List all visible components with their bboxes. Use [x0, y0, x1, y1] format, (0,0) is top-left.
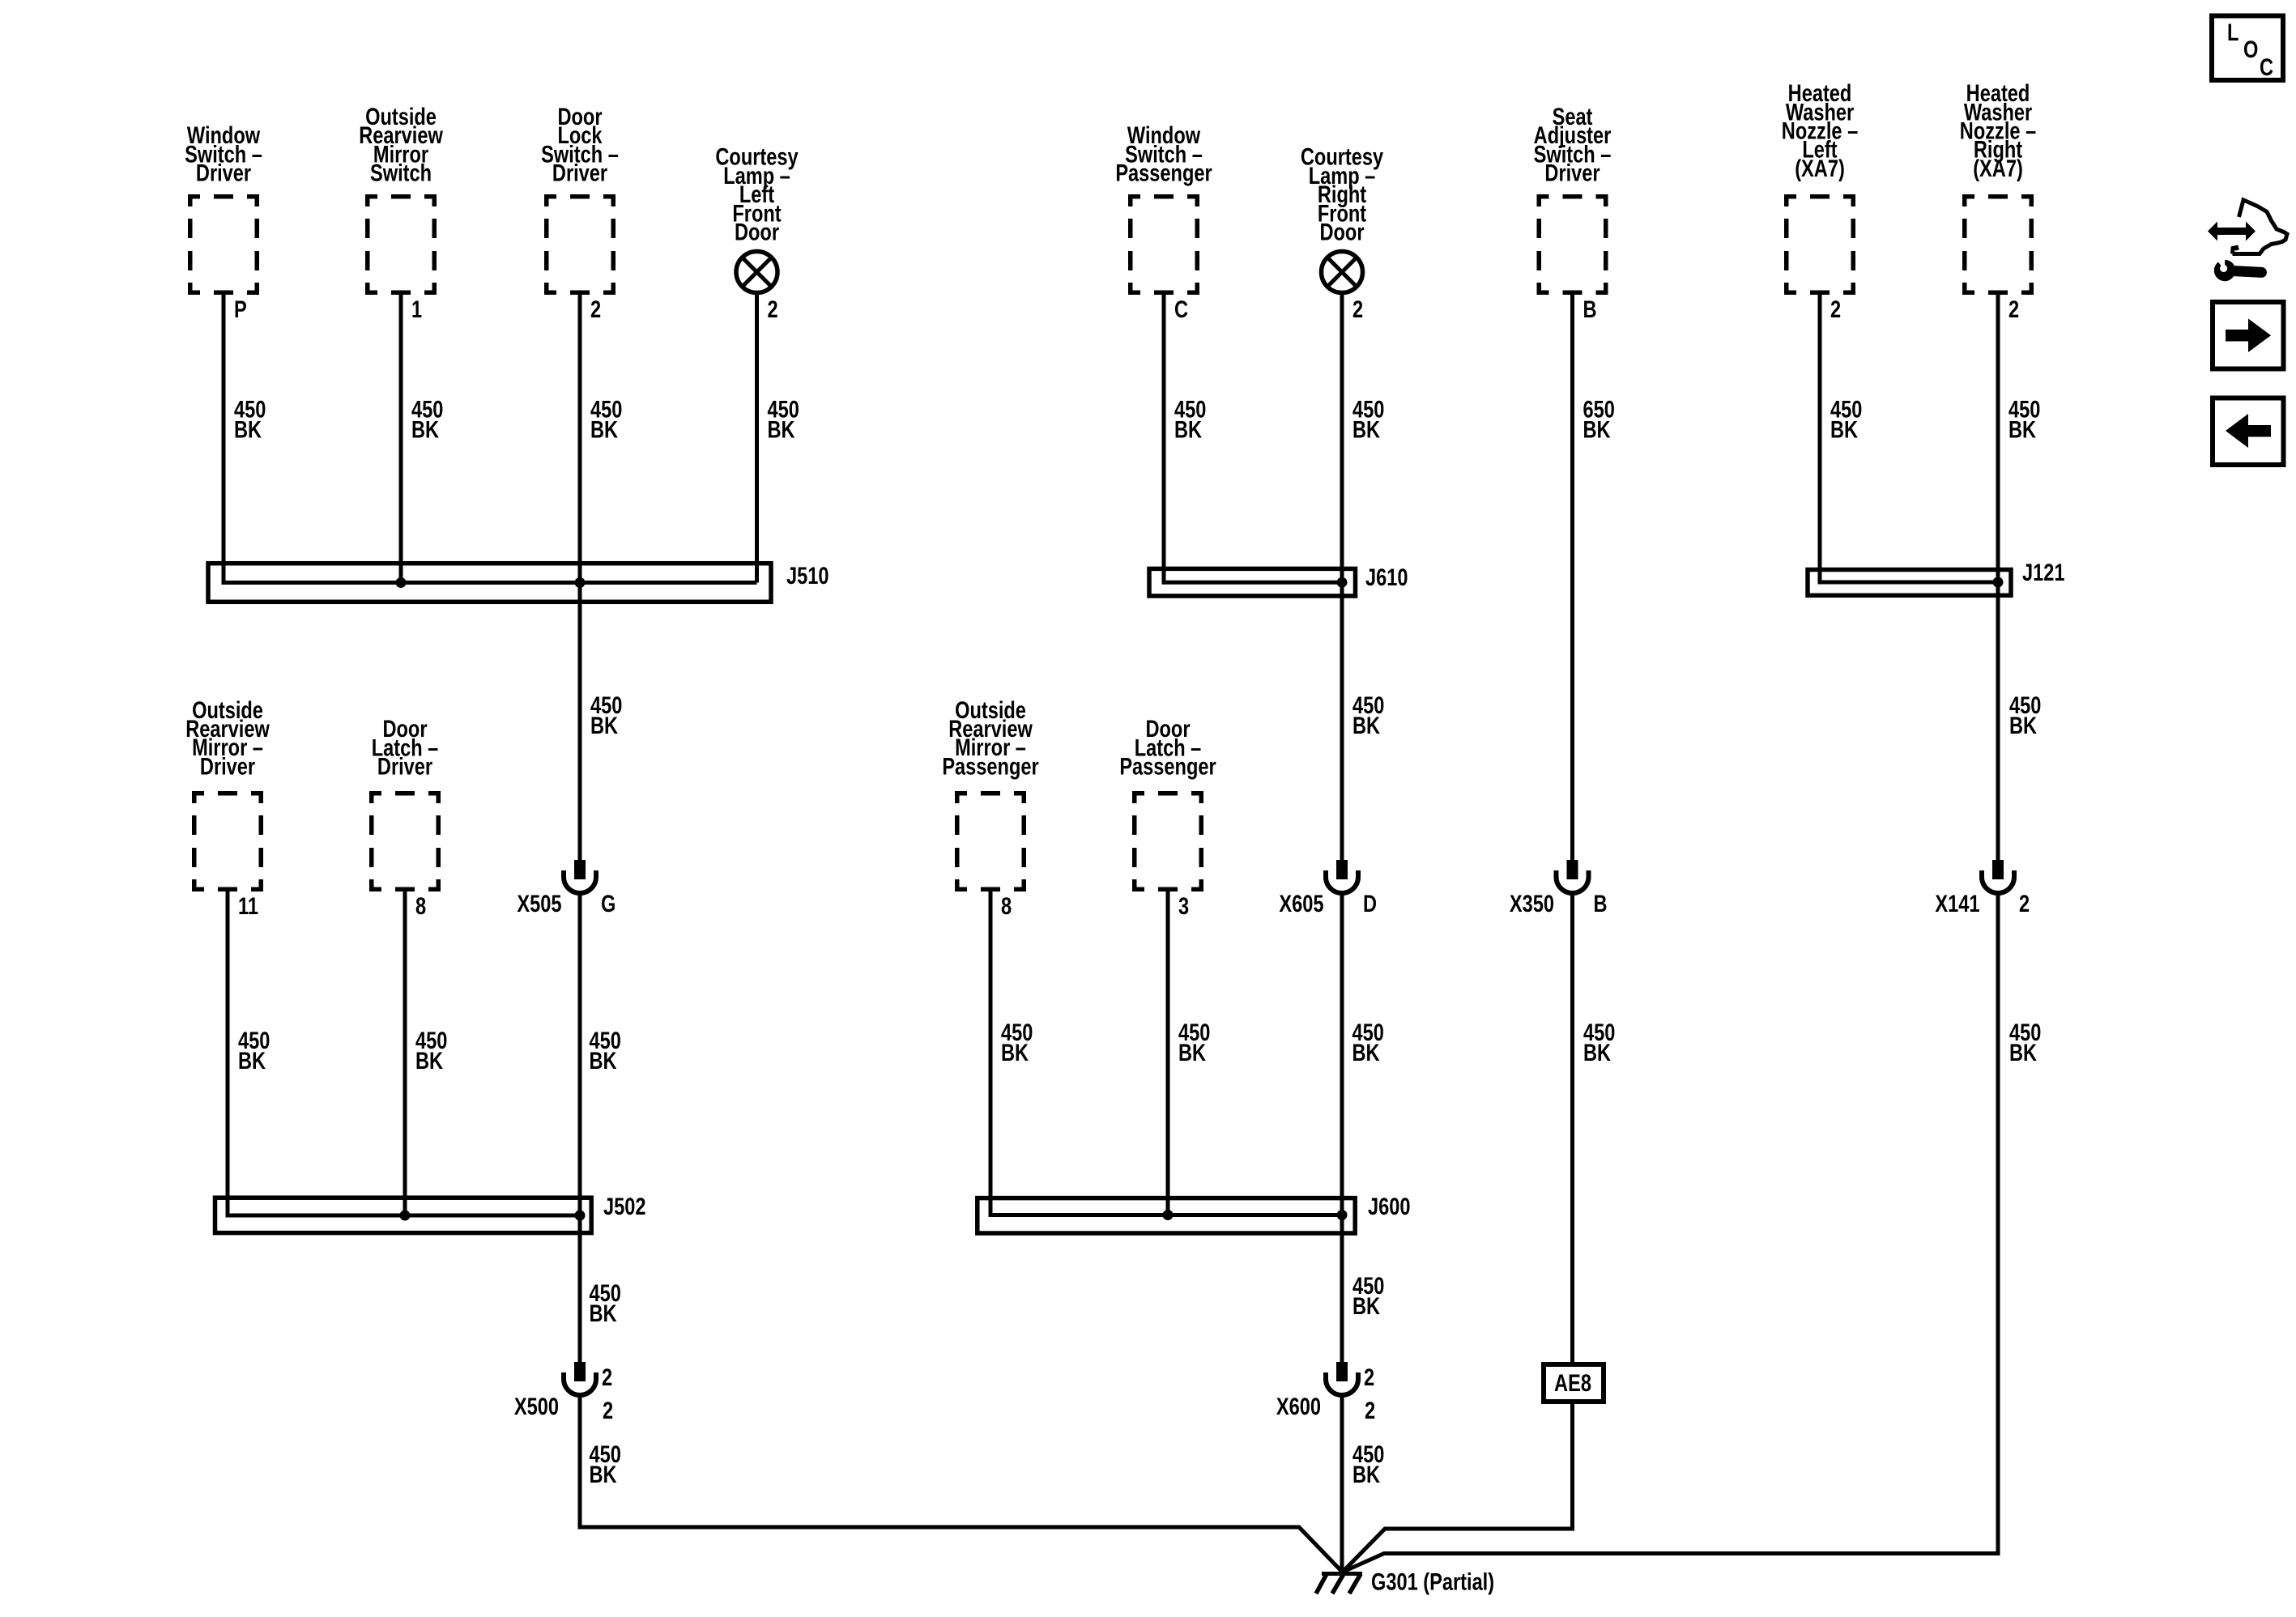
svg-text:BK: BK — [590, 1047, 618, 1074]
svg-text:2: 2 — [602, 1364, 612, 1390]
wire label 450 BK — [415, 1027, 447, 1053]
label J610 — [1365, 564, 1408, 590]
wire from row2 component x=1223 down to splice — [989, 891, 993, 1215]
junction dot J610/lamp — [1337, 577, 1348, 588]
wire label 450 BK — [2009, 691, 2041, 718]
svg-text:X350: X350 — [1510, 890, 1554, 917]
wire connector X141 to ground G301 — [1343, 893, 1999, 1572]
wire splice J600 to connector X600 — [1340, 1215, 1344, 1363]
svg-text:BK: BK — [590, 1300, 618, 1326]
wire from component pin x=934.5 down — [755, 292, 759, 583]
pin B — [1583, 296, 1597, 322]
wire splice J121 to connector X141 — [1996, 582, 2000, 860]
svg-text:BK: BK — [1001, 1039, 1029, 1066]
svg-text:2: 2 — [1830, 296, 1841, 322]
wire from component pin x=276 down — [222, 295, 226, 583]
lamp Courtesy Lamp - Right Front Door — [1301, 143, 1383, 292]
svg-text:8: 8 — [415, 892, 426, 919]
svg-text:AE8: AE8 — [1554, 1369, 1591, 1396]
connector X350 — [1557, 860, 1589, 893]
svg-text:2: 2 — [2019, 890, 2030, 917]
wire fuse AE8 to ground G301 — [1343, 1402, 1573, 1572]
svg-text:2: 2 — [2008, 296, 2019, 322]
wire label 450 BK — [1001, 1019, 1033, 1045]
svg-text:BK: BK — [1583, 416, 1612, 443]
pin 2 — [1830, 296, 1841, 322]
wire splice J502 to connector X500 — [578, 1215, 582, 1362]
junction dot J600/X605-wire — [1337, 1210, 1348, 1220]
wire from component pin x=1657 down — [1340, 292, 1344, 583]
pin 2 below X600 — [1365, 1397, 1375, 1423]
wire from component pin x=1437 down — [1162, 295, 1166, 583]
svg-text:11: 11 — [238, 892, 258, 919]
svg-text:BK: BK — [2008, 416, 2037, 443]
svg-text:B: B — [1583, 296, 1597, 322]
component Window Switch - Passenger — [1115, 122, 1212, 293]
svg-text:X500: X500 — [514, 1393, 559, 1419]
wire connector X600 to ground G301 — [1340, 1395, 1344, 1572]
svg-text:X605: X605 — [1279, 890, 1323, 917]
wire label 450 BK — [590, 1279, 621, 1306]
pin 11 — [238, 892, 258, 919]
svg-text:D: D — [1363, 890, 1377, 917]
svg-text:G301 (Partial): G301 (Partial) — [1371, 1568, 1494, 1595]
connector X500 — [564, 1362, 596, 1395]
wire label 450 BK — [1352, 1440, 1384, 1467]
svg-text:BK: BK — [1352, 1292, 1381, 1319]
svg-text:J510: J510 — [786, 562, 829, 589]
wire splice J510 to connector X505 — [578, 583, 582, 861]
icon LOC legend box — [2212, 16, 2283, 81]
label X600 — [1276, 1393, 1321, 1419]
wire label 450 BK — [1352, 1019, 1384, 1045]
svg-text:BK: BK — [1352, 1039, 1381, 1066]
svg-text:WindowSwitch –Driver: WindowSwitch –Driver — [185, 122, 262, 187]
splice J121 — [1808, 570, 2011, 596]
wire connector X350 to fuse AE8 — [1570, 893, 1574, 1364]
svg-text:BK: BK — [1174, 416, 1203, 443]
wire label 450 BK — [1178, 1019, 1210, 1045]
connector X505 — [564, 860, 596, 893]
wire Seat Adjuster Switch B to connector X350 — [1570, 295, 1574, 860]
connector X605 — [1326, 860, 1358, 893]
svg-text:WindowSwitch –Passenger: WindowSwitch –Passenger — [1115, 122, 1212, 187]
pin 2 — [1352, 296, 1363, 322]
pin 2 — [768, 296, 778, 322]
wire label 650 BK — [1583, 396, 1615, 423]
fuse AE8 — [1544, 1364, 1604, 1402]
svg-text:BK: BK — [1352, 416, 1381, 443]
wire label 450 BK — [238, 1027, 270, 1053]
label X350 — [1510, 890, 1554, 917]
svg-text:BK: BK — [768, 416, 796, 443]
wire from row2 component x=281 down to splice — [226, 891, 230, 1215]
icon back arrow box — [2213, 398, 2284, 466]
component Door Latch - Passenger — [1119, 715, 1216, 889]
svg-text:2: 2 — [768, 296, 778, 322]
label J600 — [1368, 1193, 1410, 1219]
pin 8 — [415, 892, 426, 919]
pin 2 above X600 — [1364, 1364, 1374, 1390]
pin 1 — [411, 296, 422, 322]
splice J610 — [1149, 568, 1356, 596]
splice J600 — [978, 1198, 1355, 1233]
junction dot J510/mirror-switch — [396, 577, 407, 588]
pin 2 — [2008, 296, 2019, 322]
wire splice J610 to connector X605 — [1340, 582, 1344, 860]
pin P — [234, 296, 247, 322]
label X605 — [1279, 890, 1323, 917]
icon forward arrow box — [2213, 302, 2284, 369]
wire label 450 BK — [1352, 1272, 1384, 1299]
lamp Courtesy Lamp - Left Front Door — [715, 143, 798, 292]
svg-text:C: C — [1174, 296, 1188, 322]
component Outside Rearview Mirror Switch — [359, 103, 443, 292]
wire label 450 BK — [590, 1440, 621, 1467]
component Outside Rearview Mirror - Passenger — [942, 696, 1038, 889]
svg-text:J600: J600 — [1368, 1193, 1410, 1219]
label J502 — [603, 1193, 645, 1219]
component Outside Rearview Mirror - Driver — [185, 696, 270, 889]
label X500 — [514, 1393, 559, 1419]
pin 2 below X500 — [603, 1397, 613, 1423]
svg-text:2: 2 — [1365, 1397, 1375, 1423]
wire label 450 BK — [768, 396, 799, 423]
component Heated Washer Nozzle - Right (XA7) — [1960, 79, 2037, 292]
svg-text:BK: BK — [1583, 1039, 1612, 1066]
svg-text:P: P — [234, 296, 247, 322]
junction dot J121/nozzle-right — [1993, 577, 2004, 588]
pin 2 — [590, 296, 601, 322]
svg-text:2: 2 — [590, 296, 601, 322]
svg-text:X600: X600 — [1276, 1393, 1321, 1419]
label X141 — [1935, 890, 1979, 917]
svg-text:J121: J121 — [2022, 559, 2065, 585]
pin 8 — [1001, 892, 1012, 919]
wire label 450 BK — [234, 396, 266, 423]
svg-text:BK: BK — [590, 416, 619, 443]
svg-text:BK: BK — [1352, 1461, 1381, 1487]
svg-text:B: B — [1594, 890, 1608, 917]
junction dot J510/door-lock — [575, 577, 586, 588]
pin 3 — [1178, 892, 1189, 919]
svg-text:8: 8 — [1001, 892, 1012, 919]
label J121 — [2022, 559, 2065, 585]
svg-text:2: 2 — [1352, 296, 1363, 322]
wire label 450 BK — [1174, 396, 1206, 423]
wire connector X505 to splice J502 — [578, 893, 582, 1215]
svg-text:X505: X505 — [517, 890, 561, 917]
svg-text:OutsideRearviewMirror –Passeng: OutsideRearviewMirror –Passenger — [942, 696, 1038, 780]
svg-text:BK: BK — [1178, 1039, 1207, 1066]
component Heated Washer Nozzle - Left (XA7) — [1782, 79, 1859, 292]
wire from component pin x=2467 down — [1996, 295, 2000, 583]
wire label 450 BK — [590, 1027, 621, 1053]
wire label 450 BK — [1830, 396, 1862, 423]
wire label 450 BK — [590, 396, 622, 423]
svg-text:2: 2 — [603, 1397, 613, 1423]
svg-text:BK: BK — [1352, 712, 1381, 738]
wire connector X500 to ground G301 — [580, 1395, 1343, 1572]
svg-text:BK: BK — [234, 416, 262, 443]
connector X600 — [1326, 1362, 1358, 1395]
svg-text:J610: J610 — [1365, 564, 1408, 590]
svg-text:1: 1 — [411, 296, 422, 322]
wire label 450 BK — [1352, 396, 1384, 423]
pin C — [1174, 296, 1188, 322]
svg-text:BK: BK — [415, 1047, 444, 1074]
junction dot J502/door-latch-driver — [400, 1211, 411, 1221]
ground G301 — [1316, 1574, 1362, 1594]
svg-text:BK: BK — [238, 1047, 266, 1074]
pin B of X350 — [1594, 890, 1608, 917]
label G301 (Partial) — [1371, 1568, 1494, 1595]
svg-text:BK: BK — [590, 712, 619, 738]
svg-text:J502: J502 — [603, 1193, 645, 1219]
svg-text:O: O — [2243, 36, 2258, 62]
svg-text:3: 3 — [1178, 892, 1189, 919]
wire label 450 BK — [411, 396, 443, 423]
wire from component pin x=2247 down — [1818, 295, 1822, 583]
svg-text:OutsideRearviewMirrorSwitch: OutsideRearviewMirrorSwitch — [359, 103, 443, 186]
wire connector X605 to splice J600 — [1340, 893, 1344, 1215]
pin 2 of X141 — [2019, 890, 2030, 917]
wire label 450 BK — [2008, 396, 2040, 423]
svg-text:BK: BK — [590, 1461, 618, 1487]
svg-text:BK: BK — [411, 416, 440, 443]
svg-text:X141: X141 — [1935, 890, 1979, 917]
splice J510 — [208, 564, 771, 602]
junction dot J600/door-latch-passenger — [1163, 1210, 1174, 1220]
svg-text:2: 2 — [1364, 1364, 1374, 1390]
svg-text:G: G — [601, 890, 616, 917]
wire label 450 BK — [2009, 1019, 2041, 1045]
svg-text:BK: BK — [1830, 416, 1859, 443]
wire from component pin x=495 down — [399, 295, 403, 583]
component Seat Adjuster Switch - Driver — [1534, 103, 1612, 292]
svg-text:L: L — [2227, 19, 2238, 45]
pin 2 above X500 — [602, 1364, 612, 1390]
wire from row2 component x=1442 down to splice — [1166, 891, 1170, 1215]
component Door Lock Switch - Driver — [541, 103, 619, 292]
pin D of X605 — [1363, 890, 1377, 917]
wire from row2 component x=500 down to splice — [403, 891, 407, 1215]
svg-text:BK: BK — [2009, 712, 2038, 738]
component Window Switch - Driver — [185, 122, 262, 293]
pin G of X505 — [601, 890, 616, 917]
wire label 450 BK — [590, 691, 622, 718]
wire label 450 BK — [1583, 1019, 1615, 1045]
wire from component pin x=716 down — [578, 295, 582, 583]
component Door Latch - Driver — [372, 715, 439, 889]
junction dot J502/X505-wire — [575, 1211, 586, 1221]
label X505 — [517, 890, 561, 917]
svg-text:BK: BK — [2009, 1039, 2038, 1066]
splice J502 — [215, 1198, 592, 1232]
label J510 — [786, 562, 829, 589]
svg-text:C: C — [2260, 53, 2273, 80]
wire label 450 BK — [1352, 691, 1384, 718]
icon vehicle outline with double arrow and wrench — [2208, 200, 2287, 283]
connector X141 — [1982, 860, 2014, 893]
